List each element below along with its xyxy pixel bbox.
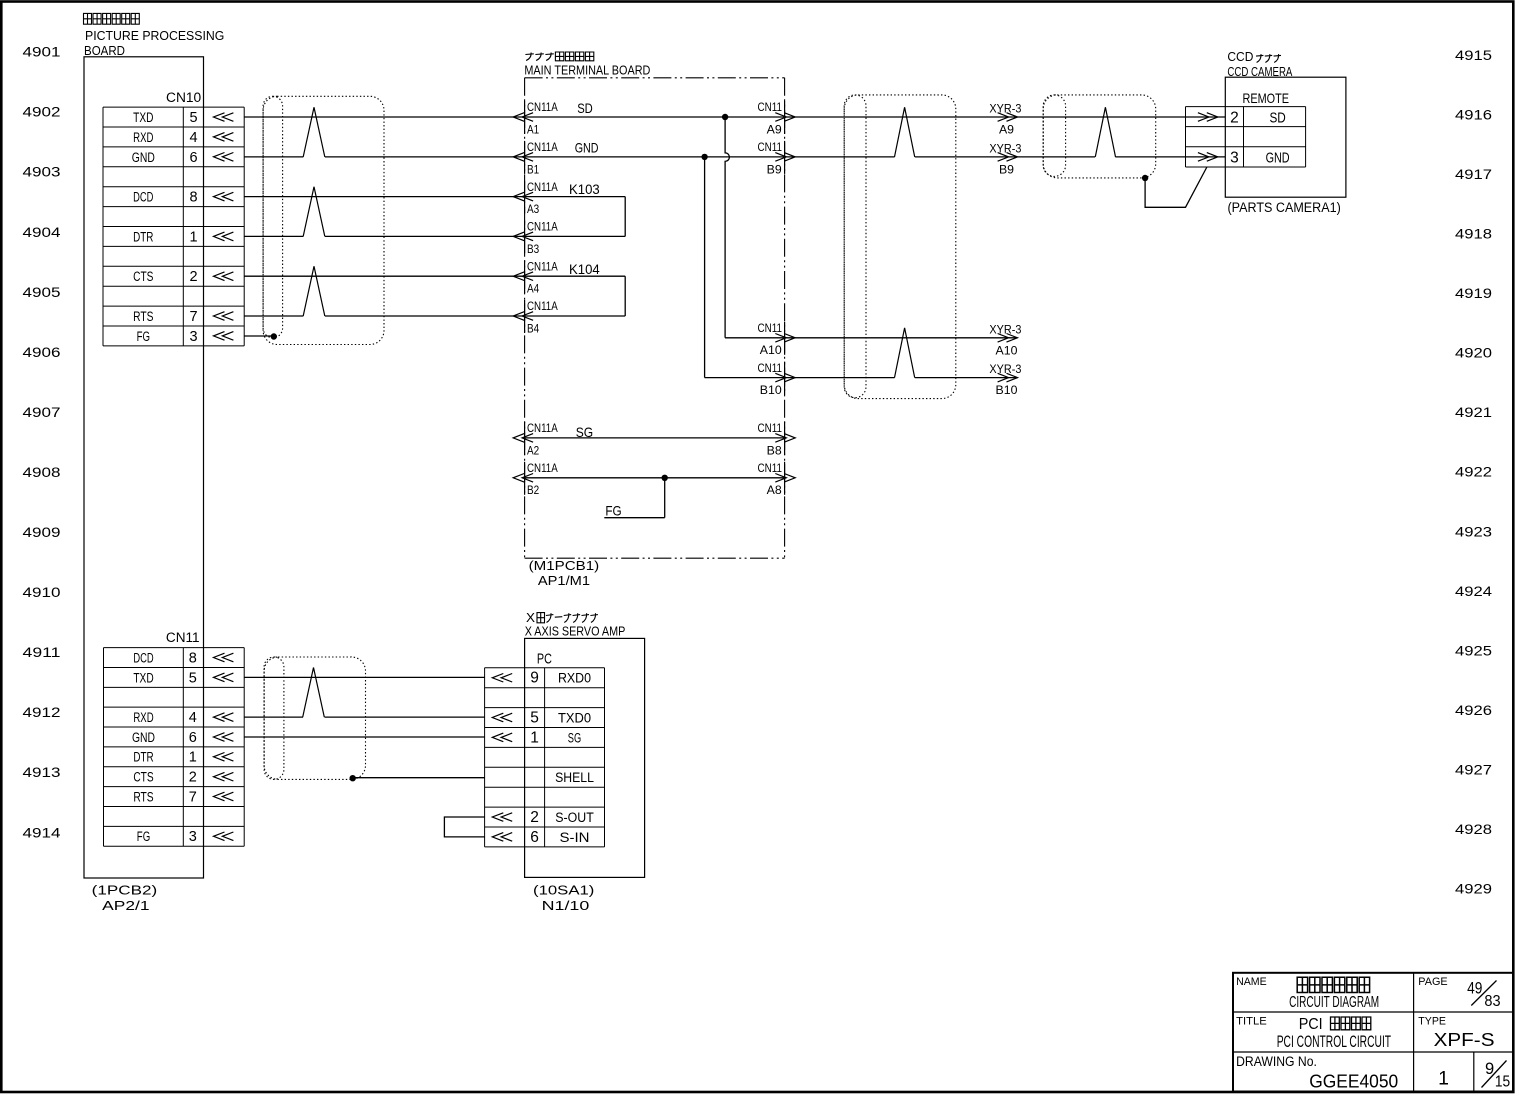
svg-text:FG: FG <box>137 329 150 344</box>
svg-text:2: 2 <box>530 809 539 826</box>
relay label K103 <box>569 181 600 197</box>
junction dot FG shield <box>271 333 277 339</box>
title kanji: electric circuit diagram <box>1297 977 1369 992</box>
svg-text:XYR-3: XYR-3 <box>989 102 1021 116</box>
wire FG net (B2 to A8) <box>525 477 785 479</box>
svg-text:A2: A2 <box>527 443 539 457</box>
svg-text:4910: 4910 <box>23 584 61 600</box>
svg-text:CN11A: CN11A <box>527 421 558 435</box>
svg-text:4924: 4924 <box>1455 583 1492 599</box>
svg-text:4904: 4904 <box>23 224 61 240</box>
label CCD CAMERA <box>1227 65 1293 79</box>
svg-text:GND: GND <box>1266 149 1290 166</box>
camera pin 3 GND <box>1230 149 1290 166</box>
svg-text:(PARTS CAMERA1): (PARTS CAMERA1) <box>1228 200 1341 215</box>
svg-text:K103: K103 <box>569 181 600 197</box>
wire B10 horizontal <box>705 377 1018 379</box>
cable XYR-3 flow arrows <box>998 113 1018 382</box>
svg-text:15: 15 <box>1495 1073 1510 1090</box>
cable shield symbol 1 inner pill <box>263 96 283 337</box>
svg-text:XYR-3: XYR-3 <box>989 142 1021 156</box>
twisted pair symbol T5 (A9/B9) <box>1095 107 1115 157</box>
svg-text:A10: A10 <box>760 343 782 357</box>
svg-text:PCI CONTROL CIRCUIT: PCI CONTROL CIRCUIT <box>1277 1033 1391 1051</box>
svg-text:7: 7 <box>189 789 197 805</box>
svg-text:6: 6 <box>189 150 197 166</box>
twisted pair symbol T4 (A9/B9) <box>895 107 915 157</box>
type XPF-S <box>1434 1029 1495 1050</box>
junction dot GND/B10 <box>701 154 707 160</box>
label kana: X axis servo amp <box>526 611 598 625</box>
connector CN11A boundary chevrons (left edge) <box>513 113 533 482</box>
svg-text:1: 1 <box>530 729 539 746</box>
label CN11 (lower) <box>166 630 200 645</box>
servo amp board outline <box>525 638 645 877</box>
cable shield symbol 2 outer <box>844 95 956 399</box>
svg-text:5: 5 <box>189 670 197 686</box>
connector CN11 (lower) arrows <box>214 653 234 840</box>
svg-text:CN11: CN11 <box>758 100 783 114</box>
camera pin 2 SD <box>1230 109 1286 126</box>
K103 box right edge <box>624 197 626 237</box>
svg-text:1: 1 <box>189 229 197 245</box>
junction dot SD/A10 <box>722 114 728 120</box>
svg-text:PCI: PCI <box>1299 1016 1323 1033</box>
svg-text:83: 83 <box>1484 993 1500 1010</box>
svg-text:CN11: CN11 <box>758 361 783 375</box>
connector CN11 (lower) pin names and numbers <box>132 650 197 845</box>
svg-text:NAME: NAME <box>1236 976 1267 988</box>
label kanji: picture input board <box>84 13 140 24</box>
svg-text:PICTURE PROCESSING: PICTURE PROCESSING <box>85 28 224 43</box>
label PICTURE PROCESSING <box>85 28 224 43</box>
label (10SA1) <box>533 883 594 898</box>
svg-text:2: 2 <box>189 269 197 285</box>
svg-text:4905: 4905 <box>23 284 61 300</box>
svg-text:A9: A9 <box>999 123 1014 137</box>
sheet number 1 <box>1438 1067 1449 1089</box>
svg-text:A9: A9 <box>767 122 782 136</box>
svg-text:B9: B9 <box>999 163 1014 177</box>
svg-text:RXD: RXD <box>133 130 153 145</box>
wire S-OUT S-IN loop <box>444 817 484 837</box>
cable shield symbol 2 inner pill <box>844 95 866 398</box>
cable shield symbol 3 inner pill <box>1043 95 1065 176</box>
svg-text:S-OUT: S-OUT <box>555 810 594 825</box>
svg-text:CCD: CCD <box>1227 50 1253 64</box>
svg-text:CN11A: CN11A <box>527 140 558 154</box>
wire TXD to RXD0 <box>244 676 484 678</box>
title block label TITLE <box>1236 1016 1267 1028</box>
svg-text:GND: GND <box>575 140 599 156</box>
svg-text:K104: K104 <box>569 261 600 277</box>
svg-text:TXD: TXD <box>133 110 153 125</box>
svg-text:6: 6 <box>530 829 539 846</box>
label kana: main relay board <box>525 52 593 61</box>
svg-text:A8: A8 <box>767 483 782 497</box>
wire DTR to K103 B3 <box>244 235 625 237</box>
svg-text:B9: B9 <box>767 162 782 176</box>
svg-text:4913: 4913 <box>23 764 61 780</box>
svg-text:4928: 4928 <box>1455 821 1492 837</box>
svg-text:2: 2 <box>189 770 197 786</box>
svg-text:FG: FG <box>605 503 621 519</box>
svg-text:4919: 4919 <box>1455 285 1492 301</box>
svg-text:X AXIS SERVO AMP: X AXIS SERVO AMP <box>525 623 626 638</box>
labels XYR-3 A9 B9 A10 B10 <box>989 102 1021 398</box>
svg-text:CTS: CTS <box>133 770 153 785</box>
wire DCD to K103 A3 (top edge of K103) <box>244 196 625 198</box>
title block label PAGE <box>1418 976 1448 988</box>
svg-text:4903: 4903 <box>23 164 61 180</box>
svg-text:XPF-S: XPF-S <box>1434 1029 1495 1050</box>
svg-text:4915: 4915 <box>1455 47 1492 63</box>
CCD camera box <box>1225 77 1346 197</box>
svg-text:A1: A1 <box>527 122 539 136</box>
wire FG stub <box>604 478 664 518</box>
label BOARD <box>84 43 125 58</box>
svg-text:TXD0: TXD0 <box>558 710 591 725</box>
wire RTS to K104 B4 <box>244 315 625 317</box>
svg-text:RTS: RTS <box>133 309 153 324</box>
twisted pair symbol T7 (TXD/RXD) <box>303 668 325 718</box>
svg-text:PC: PC <box>537 652 552 668</box>
svg-text:B8: B8 <box>767 443 782 457</box>
svg-text:CN11A: CN11A <box>527 259 558 273</box>
svg-text:B3: B3 <box>527 242 539 256</box>
svg-text:4926: 4926 <box>1455 702 1492 718</box>
svg-text:RTS: RTS <box>133 789 153 804</box>
junction dot lower cable shield <box>350 775 356 781</box>
svg-text:N1/10: N1/10 <box>542 899 590 913</box>
svg-text:CN11A: CN11A <box>527 299 558 313</box>
svg-text:CN11A: CN11A <box>527 461 558 475</box>
net label SG <box>576 424 593 440</box>
svg-text:B10: B10 <box>996 383 1018 397</box>
wire FG to cable shield <box>244 335 274 337</box>
title block label TYPE <box>1418 1016 1446 1028</box>
svg-text:FG: FG <box>137 829 150 844</box>
relay label K104 <box>569 261 600 277</box>
svg-text:4902: 4902 <box>23 104 61 120</box>
camera entry arrows <box>1198 113 1218 162</box>
svg-text:GND: GND <box>132 730 155 745</box>
servo amp pin arrows <box>492 674 512 842</box>
label X AXIS SERVO AMP <box>525 623 626 638</box>
svg-text:DCD: DCD <box>133 650 153 665</box>
svg-text:3: 3 <box>1230 149 1239 166</box>
cable shield symbol 3 outer <box>1043 95 1156 178</box>
svg-text:(10SA1): (10SA1) <box>533 883 594 898</box>
label AP1/M1 <box>538 574 590 588</box>
svg-text:CN11A: CN11A <box>527 100 558 114</box>
svg-text:(M1PCB1): (M1PCB1) <box>529 559 600 573</box>
svg-text:4909: 4909 <box>23 524 61 540</box>
twisted pair symbol T1 (TXD/GND) <box>303 107 325 157</box>
label (M1PCB1) <box>529 559 600 573</box>
svg-text:SG: SG <box>568 730 581 745</box>
label PC <box>537 652 552 668</box>
cable shield symbol 4 outer <box>264 657 365 779</box>
svg-text:9: 9 <box>530 670 539 687</box>
svg-text:A4: A4 <box>527 282 539 296</box>
revision 9/15 <box>1482 1060 1511 1090</box>
svg-text:6: 6 <box>189 730 197 746</box>
svg-text:3: 3 <box>189 829 197 845</box>
board AP2/1 picture processing board outline <box>84 57 204 878</box>
svg-text:(1PCB2): (1PCB2) <box>92 883 158 898</box>
svg-text:CN11: CN11 <box>758 421 783 435</box>
svg-text:4916: 4916 <box>1455 107 1492 123</box>
svg-text:RXD: RXD <box>133 710 153 725</box>
svg-text:49: 49 <box>1467 979 1482 998</box>
svg-text:4925: 4925 <box>1455 642 1492 658</box>
svg-text:DRAWING No.: DRAWING No. <box>1236 1054 1317 1069</box>
labels CN11A pins A1 B1 A3 B3 A4 B4 A2 B2 <box>527 100 558 497</box>
wire SD (CN10 TXD 5 to CCD camera pin 2) <box>244 116 1225 118</box>
label N1/10 <box>542 899 590 913</box>
title PCI kanji: PCI control circuit <box>1299 1016 1371 1033</box>
svg-text:TXD: TXD <box>133 670 153 685</box>
svg-text:SD: SD <box>1269 109 1285 126</box>
svg-text:CIRCUIT DIAGRAM: CIRCUIT DIAGRAM <box>1289 994 1379 1011</box>
svg-text:B10: B10 <box>760 383 782 397</box>
twisted pair symbol T3 (CTS/RTS) <box>303 266 325 316</box>
label REMOTE <box>1243 90 1290 106</box>
svg-text:A10: A10 <box>996 343 1018 357</box>
label CN10 <box>166 90 201 105</box>
K104 box right edge <box>624 276 626 316</box>
connector CN10 table <box>103 107 244 346</box>
svg-text:4923: 4923 <box>1455 523 1492 539</box>
svg-text:4912: 4912 <box>23 704 61 720</box>
svg-text:2: 2 <box>1230 109 1239 126</box>
wire CTS to K104 A4 (top edge of K104) <box>244 275 625 277</box>
svg-text:8: 8 <box>189 650 197 666</box>
main terminal board dash-dot outline <box>525 78 785 558</box>
svg-text:5: 5 <box>530 709 539 726</box>
svg-text:RXD0: RXD0 <box>558 671 591 686</box>
svg-text:DTR: DTR <box>133 750 153 765</box>
svg-text:1: 1 <box>189 750 197 766</box>
svg-text:5: 5 <box>189 110 197 126</box>
connector CN11 boundary chevrons (right edge) <box>775 113 795 482</box>
CCD camera pin table <box>1186 107 1306 167</box>
svg-text:XYR-3: XYR-3 <box>989 362 1021 376</box>
svg-text:GND: GND <box>132 150 155 165</box>
svg-text:GGEE4050: GGEE4050 <box>1309 1070 1398 1091</box>
svg-text:CN11: CN11 <box>758 461 783 475</box>
svg-text:4901: 4901 <box>23 44 61 60</box>
title CIRCUIT DIAGRAM <box>1289 994 1379 1011</box>
title block label DRAWING No. <box>1236 1054 1317 1069</box>
svg-text:3: 3 <box>189 329 197 345</box>
solid boundary segments at connectors <box>525 101 785 495</box>
wire shield to SHELL <box>353 777 485 779</box>
svg-text:4921: 4921 <box>1455 404 1492 420</box>
wire RXD to TXD0 <box>244 716 484 718</box>
svg-text:CN11: CN11 <box>166 630 200 645</box>
svg-text:4914: 4914 <box>23 824 61 840</box>
board AP2/1 label AP2/1 <box>102 899 149 913</box>
wire GND (CN10 GND 6 to CCD camera pin 3) <box>244 156 1225 158</box>
svg-text:4927: 4927 <box>1455 761 1492 777</box>
board AP2/1 label (1PCB2) <box>92 883 158 898</box>
twisted pair symbol T6 (A10/B10) <box>895 328 915 378</box>
svg-text:DTR: DTR <box>133 229 153 244</box>
wire vertical A10 with hop over GND <box>725 117 729 338</box>
cable shield symbol 1 outer <box>263 96 384 344</box>
svg-text:4911: 4911 <box>23 644 61 660</box>
svg-text:7: 7 <box>189 309 197 325</box>
labels CN11 pins A9 B9 A10 B10 B8 A8 <box>758 100 783 497</box>
net label GND <box>575 140 599 156</box>
svg-text:B1: B1 <box>527 162 539 176</box>
svg-text:CN10: CN10 <box>166 90 201 105</box>
svg-text:AP2/1: AP2/1 <box>102 899 149 913</box>
wire A10 horizontal <box>725 337 1017 339</box>
wire GND to SG <box>244 736 484 738</box>
drawing number GGEE4050 <box>1309 1070 1398 1091</box>
svg-text:4920: 4920 <box>1455 345 1492 361</box>
svg-text:CTS: CTS <box>133 269 153 284</box>
page number 49/83 <box>1467 979 1501 1010</box>
title block label NAME <box>1236 976 1267 988</box>
svg-text:TITLE: TITLE <box>1236 1016 1267 1028</box>
svg-text:4918: 4918 <box>1455 226 1492 242</box>
svg-text:REMOTE: REMOTE <box>1243 90 1290 106</box>
junction dot FG net <box>662 475 668 481</box>
svg-text:4: 4 <box>189 710 197 726</box>
wire shield to camera frame <box>1145 167 1207 207</box>
svg-text:CN11A: CN11A <box>527 180 558 194</box>
svg-text:TYPE: TYPE <box>1418 1016 1446 1028</box>
svg-text:4908: 4908 <box>23 464 61 480</box>
connector CN10 pin names and numbers <box>132 110 198 345</box>
svg-text:SD: SD <box>577 100 593 116</box>
svg-text:MAIN TERMINAL BOARD: MAIN TERMINAL BOARD <box>524 62 650 77</box>
title block frame <box>1233 973 1513 1092</box>
label CCD kana: CCD camera <box>1227 50 1281 64</box>
connector CN11 (lower) table <box>104 648 245 847</box>
right grid reference numbers 4915-4929 <box>1455 47 1492 896</box>
svg-text:8: 8 <box>189 190 197 206</box>
net label SD <box>577 100 593 116</box>
net label FG <box>605 503 621 519</box>
svg-text:4: 4 <box>189 130 197 146</box>
svg-text:4922: 4922 <box>1455 464 1492 480</box>
svg-text:BOARD: BOARD <box>84 43 125 58</box>
svg-text:AP1/M1: AP1/M1 <box>538 574 590 588</box>
svg-text:B2: B2 <box>527 483 539 497</box>
svg-text:4929: 4929 <box>1455 880 1492 896</box>
label (PARTS CAMERA1) <box>1228 200 1341 215</box>
svg-text:CN11: CN11 <box>758 321 783 335</box>
servo amp PC pin table <box>485 668 605 847</box>
junction dot cable3 shield <box>1142 175 1148 181</box>
svg-text:PAGE: PAGE <box>1418 976 1448 988</box>
wire SG (A2 to B8) <box>525 437 785 439</box>
svg-text:4906: 4906 <box>23 344 61 360</box>
svg-text:DCD: DCD <box>133 190 153 205</box>
label MAIN TERMINAL BOARD <box>524 62 650 77</box>
title PCI CONTROL CIRCUIT <box>1277 1033 1391 1051</box>
left grid reference numbers 4901-4914 <box>23 44 61 841</box>
svg-text:1: 1 <box>1438 1067 1449 1089</box>
servo amp pin names and numbers <box>530 670 594 846</box>
svg-text:CN11A: CN11A <box>527 220 558 234</box>
cable shield symbol 4 inner pill <box>264 657 284 779</box>
svg-text:SHELL: SHELL <box>555 770 594 785</box>
connector CN10 arrows <box>214 113 234 340</box>
wire vertical B10 <box>704 157 706 378</box>
svg-text:XYR-3: XYR-3 <box>989 322 1021 336</box>
twisted pair symbol T2 (DCD/DTR) <box>303 187 325 237</box>
svg-text:S-IN: S-IN <box>560 830 590 845</box>
svg-text:4907: 4907 <box>23 404 61 420</box>
svg-text:CN11: CN11 <box>758 140 783 154</box>
svg-text:A3: A3 <box>527 202 539 216</box>
svg-text:4917: 4917 <box>1455 166 1492 182</box>
svg-text:B4: B4 <box>527 321 539 335</box>
